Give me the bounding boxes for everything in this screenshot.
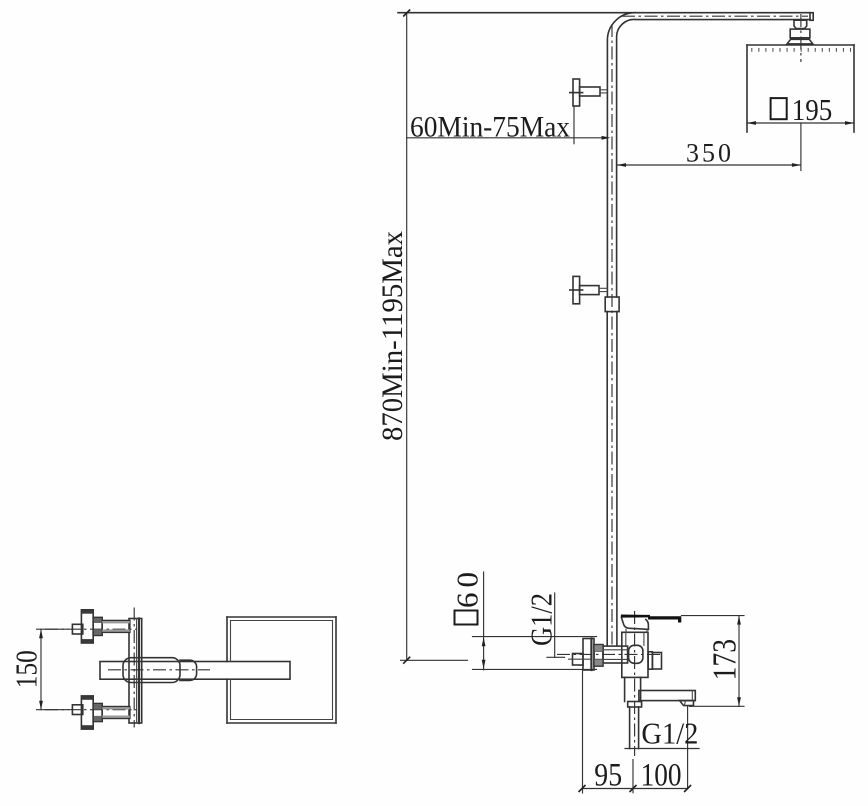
svg-text:100: 100 [641,758,682,794]
svg-text:G1/2: G1/2 [641,716,698,751]
svg-text:60Min-75Max: 60Min-75Max [410,111,570,144]
svg-text:G1/2: G1/2 [524,593,559,646]
svg-text:95: 95 [594,758,622,794]
svg-text:195: 195 [792,92,833,127]
svg-text:870Min-1195Max: 870Min-1195Max [376,231,409,441]
svg-text:350: 350 [686,139,731,168]
svg-text:173: 173 [707,639,744,681]
svg-text:150: 150 [8,650,43,688]
